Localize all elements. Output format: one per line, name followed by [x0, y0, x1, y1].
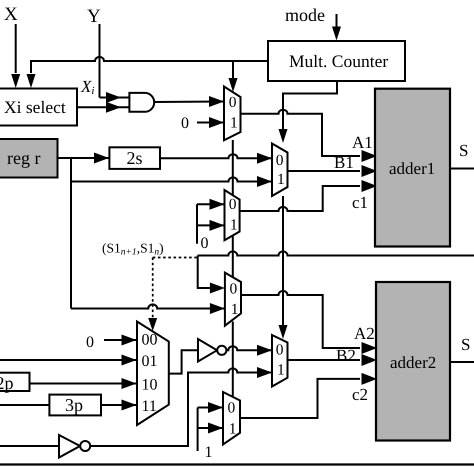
svg-text:reg r: reg r	[7, 148, 40, 168]
svg-text:1: 1	[230, 115, 238, 132]
wire bottom inverter to mux F input 1	[90, 367, 272, 446]
mux G (0/1)	[223, 392, 240, 445]
svg-text:0: 0	[181, 115, 189, 132]
label c1	[352, 193, 368, 212]
wire Mult.Counter output to mux B select	[279, 81, 338, 143]
mux B (0/1)	[272, 144, 288, 197]
wire reg r down branch	[70, 158, 72, 309]
wire inverter output to mux F input 0	[226, 345, 272, 356]
wire Mult.Counter to Xi select (top bus)	[27, 57, 269, 88]
constant 0 into mux E input 00	[86, 334, 137, 351]
select thread mux D to mux G	[232, 322, 234, 398]
svg-text:S: S	[461, 335, 470, 354]
svg-text:mode: mode	[285, 5, 325, 25]
svg-text:0: 0	[86, 334, 94, 351]
inverter U2	[198, 339, 226, 362]
inverter U3 (bottom)	[59, 435, 90, 458]
constant 0 bracket into mux C	[197, 199, 225, 252]
wire 2p output to mux E input 10	[30, 378, 137, 389]
svg-text:A2: A2	[354, 324, 375, 343]
wire mux A output to adder1 A1	[241, 110, 378, 162]
svg-text:2p: 2p	[0, 373, 14, 393]
mux F (0/1)	[272, 335, 288, 387]
svg-text:1: 1	[231, 301, 239, 318]
wire select mux B bottom to mux F select	[279, 196, 288, 339]
wire S1 branch to mux D input 0	[198, 256, 225, 294]
label B2	[336, 346, 356, 365]
svg-text:S: S	[459, 141, 468, 160]
svg-text:Xi: Xi	[80, 77, 94, 97]
adder1 box	[375, 89, 450, 247]
mux C (0/1)	[225, 190, 240, 240]
Mult. Counter box	[268, 41, 405, 81]
svg-text:Y: Y	[87, 6, 101, 27]
label (S1n+1,S1n)	[102, 241, 164, 258]
svg-text:00: 00	[142, 332, 158, 349]
wire mux G output to adder2 c2	[240, 373, 377, 418]
wire into bottom inverter	[0, 445, 59, 447]
svg-text:1: 1	[205, 444, 213, 461]
wire S1 bus horizontal	[198, 251, 474, 255]
wire adder1 S output	[450, 168, 474, 170]
svg-text:adder2: adder2	[390, 353, 436, 372]
mux E (00/01/10/11)	[137, 322, 169, 426]
wire into 3p	[0, 404, 49, 406]
svg-text:1: 1	[230, 217, 238, 234]
3p box	[49, 395, 101, 416]
wire mux D output to adder2 A2	[241, 291, 377, 354]
svg-text:X: X	[4, 4, 18, 25]
label A1	[352, 133, 373, 152]
svg-text:1: 1	[229, 421, 237, 438]
adder2 box	[376, 282, 450, 441]
svg-text:0: 0	[229, 94, 237, 111]
wire reg r to mux D input 1	[71, 303, 225, 314]
wire AND output to mux A input 0	[154, 96, 224, 107]
svg-text:10: 10	[142, 377, 158, 394]
dotted wire S1 feedback to mux E select	[148, 258, 198, 332]
svg-text:A1: A1	[352, 133, 373, 152]
label S adder1	[459, 141, 468, 160]
svg-text:c1: c1	[352, 193, 368, 212]
wire reg r to mux B input 1	[71, 176, 272, 187]
constant 1 bracket into mux G	[198, 402, 223, 461]
svg-text:B1: B1	[334, 153, 354, 172]
svg-text:0: 0	[276, 342, 284, 359]
svg-text:0: 0	[230, 281, 238, 298]
svg-text:Mult. Counter: Mult. Counter	[289, 51, 388, 71]
wire mux E output to inverter	[169, 350, 198, 373]
wire reg r to 2s	[58, 153, 110, 164]
svg-text:0: 0	[201, 235, 209, 252]
select thread mux C to mux D	[232, 236, 234, 278]
select thread mux A to mux C	[232, 140, 234, 195]
svg-text:1: 1	[277, 171, 285, 188]
svg-text:3p: 3p	[65, 395, 83, 415]
svg-text:c2: c2	[352, 385, 368, 404]
svg-text:0: 0	[276, 152, 284, 169]
label Xi	[80, 77, 94, 97]
svg-text:0: 0	[229, 196, 237, 213]
svg-text:1: 1	[277, 362, 285, 379]
wire mux F output to adder2 B2	[288, 354, 378, 366]
svg-text:B2: B2	[336, 346, 356, 365]
wire adder2 S output	[450, 361, 474, 363]
AND gate	[129, 93, 154, 112]
mux D (0/1)	[225, 273, 241, 326]
wire mux C output to adder1 c1	[240, 180, 377, 211]
mode input	[285, 5, 341, 41]
wire mux B output to adder1 B1	[288, 165, 378, 177]
svg-text:0: 0	[228, 400, 236, 417]
svg-text:01: 01	[142, 353, 158, 370]
Xi select box	[0, 89, 77, 126]
reg r box	[0, 139, 58, 178]
label S adder2	[461, 335, 470, 354]
constant 0 into mux A input 1	[181, 115, 224, 132]
input X	[4, 4, 20, 88]
label A2	[354, 324, 375, 343]
wire 3p output to mux E input 11	[101, 400, 137, 411]
svg-text:adder1: adder1	[389, 159, 435, 178]
label B1	[334, 153, 354, 172]
2s box	[109, 147, 160, 169]
wire into mux E input 01	[0, 355, 137, 366]
bottom bus wire	[0, 463, 474, 465]
2p box	[0, 373, 30, 393]
wire mux A select	[229, 61, 238, 92]
svg-text:Xi select: Xi select	[4, 97, 66, 117]
wire 2s output to mux B input 0	[160, 153, 272, 164]
wire Xi select output to AND gate	[77, 102, 129, 113]
mux A (0/1)	[224, 87, 241, 141]
input Y	[87, 6, 129, 103]
svg-text:(S1n+1,S1n): (S1n+1,S1n)	[102, 241, 164, 258]
label c2	[352, 385, 368, 404]
svg-text:2s: 2s	[127, 148, 143, 168]
svg-text:11: 11	[142, 398, 157, 415]
